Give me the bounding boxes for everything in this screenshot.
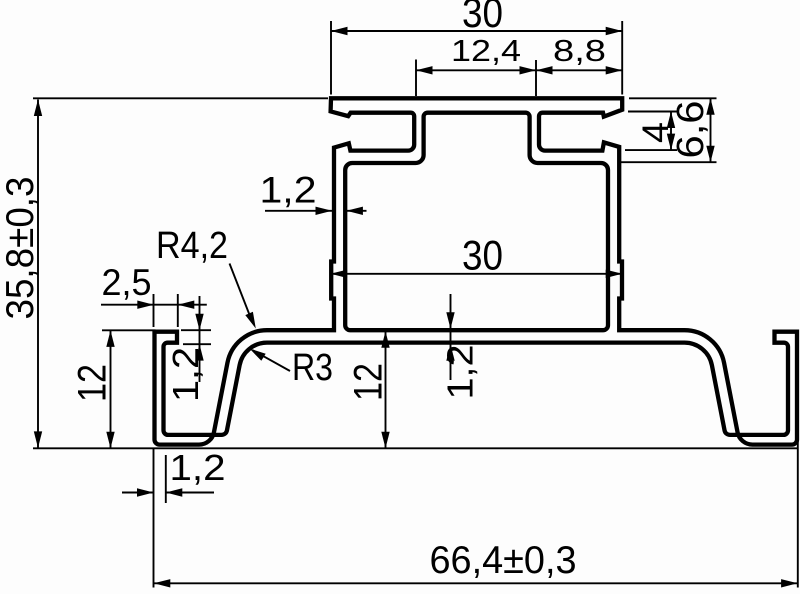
- svg-text:1,2: 1,2: [440, 345, 481, 400]
- dim 12,4 / 8,8: [416, 69, 622, 71]
- ext 1,2 foot right: [165, 455, 167, 503]
- leader R4,2: [230, 264, 253, 323]
- dim 12 mid: [385, 332, 387, 449]
- ext 35,8 bottom: [33, 447, 797, 449]
- svg-text:30: 30: [462, 232, 503, 279]
- ext 2,5 right: [177, 294, 179, 327]
- dim 66,4: [154, 582, 798, 584]
- svg-text:6,6: 6,6: [670, 101, 712, 159]
- dim 35,8: [37, 100, 39, 448]
- arrows 12 mid: [381, 331, 389, 348]
- ext 12 left top: [102, 329, 156, 331]
- arrows 2,5: [137, 301, 154, 309]
- leader R3: [253, 350, 290, 371]
- svg-text:R4,2: R4,2: [156, 225, 228, 267]
- arrows 12,4: [416, 66, 433, 74]
- dim 1,2 web: [450, 294, 452, 380]
- ext 8,8: [535, 60, 537, 96]
- dim 4: [670, 112, 672, 151]
- dim 1,2 wall tails: [265, 210, 332, 212]
- ext 6,6 top: [629, 97, 717, 99]
- ext 66,4 left: [153, 449, 155, 588]
- svg-text:8,8: 8,8: [553, 33, 606, 68]
- ext 2,5 left: [153, 294, 155, 327]
- arrows 1,2 lip: [195, 314, 203, 331]
- svg-text:30: 30: [462, 0, 503, 36]
- dim 30 top: [331, 30, 622, 32]
- dim 2,5: [101, 304, 207, 306]
- arrow R3: [250, 349, 266, 361]
- arrows 30 top: [331, 27, 348, 35]
- ext 12,4: [415, 60, 417, 97]
- dim 1,2 lip: [199, 296, 201, 382]
- dim 6,6: [710, 98, 712, 162]
- arrows 35,8: [34, 100, 42, 117]
- profile outer contour (plate, hooks, channel walls, box walls, wings, S-curves, feet): [155, 98, 798, 444]
- svg-text:2,5: 2,5: [102, 262, 152, 303]
- svg-text:R3: R3: [292, 347, 333, 389]
- arrows 66,4: [154, 579, 171, 587]
- profile inner cavity contour: [345, 113, 608, 331]
- svg-text:12,4: 12,4: [451, 33, 521, 68]
- svg-text:66,4±0,3: 66,4±0,3: [430, 539, 577, 582]
- svg-text:12: 12: [71, 364, 115, 402]
- ext 66,4 right: [797, 349, 799, 588]
- arrows 12 left: [106, 330, 114, 347]
- arrow R4,2: [245, 312, 256, 329]
- ext 4 bottom: [625, 149, 677, 151]
- ext 35,8 top: [33, 97, 328, 99]
- svg-text:1,2: 1,2: [170, 447, 226, 488]
- ext 30 top left: [330, 21, 332, 95]
- ext 30 top right: [621, 21, 623, 95]
- dim 1,2 foot: [122, 492, 153, 494]
- dim 30 mid: [331, 273, 623, 275]
- ext 4 top: [628, 111, 677, 113]
- arrows 4: [667, 112, 675, 129]
- svg-text:1,2: 1,2: [260, 170, 317, 211]
- arrows 8,8: [536, 66, 553, 74]
- ext 6,6 bottom: [618, 161, 717, 163]
- svg-text:1,2: 1,2: [165, 347, 206, 402]
- svg-text:35,8±0,3: 35,8±0,3: [0, 177, 42, 320]
- arrows 30 mid: [331, 270, 348, 278]
- arrows 6,6: [706, 98, 714, 115]
- ext 1,2 lip: [181, 329, 211, 331]
- arrows 1,2 wall: [316, 207, 333, 215]
- arrows 1,2 foot: [137, 488, 154, 496]
- svg-text:12: 12: [347, 363, 391, 401]
- arrows 1,2 web: [446, 312, 454, 329]
- dim 12 left: [110, 330, 112, 448]
